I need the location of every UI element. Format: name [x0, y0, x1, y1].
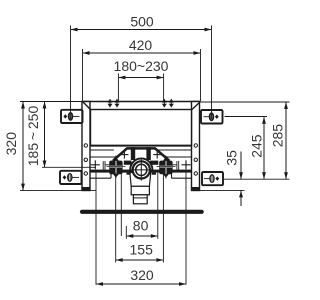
crossbar step right [172, 177, 192, 179]
svg-text:320: 320 [3, 132, 19, 156]
extension line drop x127.5 [125, 226, 127, 239]
frame back edge [83, 101, 201, 103]
fixing marks ++ left pair [108, 99, 120, 108]
crossbar step left [91, 177, 112, 179]
extension line lower right [224, 178, 290, 180]
extension line bracket right [225, 116, 268, 118]
fixing marks ++ right pair [162, 99, 174, 108]
svg-text:185 ~ 250: 185 ~ 250 [25, 106, 41, 167]
drain outlet circles [131, 159, 151, 181]
svg-text:155: 155 [130, 242, 154, 258]
extension line right of back edge [201, 101, 290, 103]
fitting arm line left [91, 156, 116, 158]
bevel corner left [83, 102, 91, 110]
drain collar dome [130, 158, 152, 172]
extension line drop x156 [157, 173, 159, 239]
union nut block right [157, 156, 176, 179]
svg-text:320: 320 [130, 267, 154, 283]
plus mark inner right [153, 151, 161, 159]
bevel corner right [192, 102, 201, 110]
extension line drop x164 [162, 173, 164, 263]
dimension 420 [83, 37, 201, 101]
svg-text:35: 35 [223, 150, 239, 166]
svg-text:420: 420 [129, 37, 153, 53]
fitting trapezoid mount [114, 148, 169, 160]
crossbar band [91, 170, 192, 173]
svg-text:245: 245 [249, 134, 265, 158]
dimension 155 [116, 242, 164, 262]
extension line left of back edge [20, 101, 83, 103]
dimension 320 left [3, 102, 96, 191]
dimension 500 [71, 14, 212, 120]
drain pipe [130, 172, 151, 203]
rail left [82, 102, 90, 191]
hose tick lines left [103, 161, 105, 172]
central U-mount [124, 147, 159, 165]
frame box front face [90, 110, 192, 151]
hose tick lines right [177, 161, 179, 172]
fitting arm line right [166, 156, 192, 158]
dimension 35 [223, 150, 243, 206]
union nut block left [107, 156, 126, 179]
wall bracket upper-left [61, 110, 83, 123]
dimension 180~230 [114, 58, 169, 101]
svg-text:180~230: 180~230 [114, 58, 169, 74]
extension line drop x115.5 [115, 173, 117, 263]
dimension 285 [270, 102, 288, 179]
extension line rail foot right [200, 189, 245, 191]
dimension 80 [126, 218, 158, 238]
svg-text:285: 285 [270, 124, 286, 148]
plus mark far left [91, 160, 109, 169]
plus mark inner left [120, 151, 128, 159]
dimension 185~250 [25, 102, 96, 168]
floor rail thick bar [82, 210, 202, 214]
extension line drop x96 [95, 173, 97, 285]
plus mark far right [173, 160, 191, 169]
dimension 245 [249, 117, 266, 179]
dimension 320 bottom [96, 267, 186, 286]
pipe line drop x121 [120, 173, 122, 236]
wall bracket upper-right [201, 110, 223, 124]
extension line drop x186 [185, 173, 187, 285]
wall bracket lower-left [60, 171, 82, 184]
rail right [192, 102, 200, 191]
svg-text:80: 80 [133, 218, 149, 234]
svg-text:500: 500 [130, 14, 154, 30]
wall bracket lower-right [202, 172, 223, 185]
